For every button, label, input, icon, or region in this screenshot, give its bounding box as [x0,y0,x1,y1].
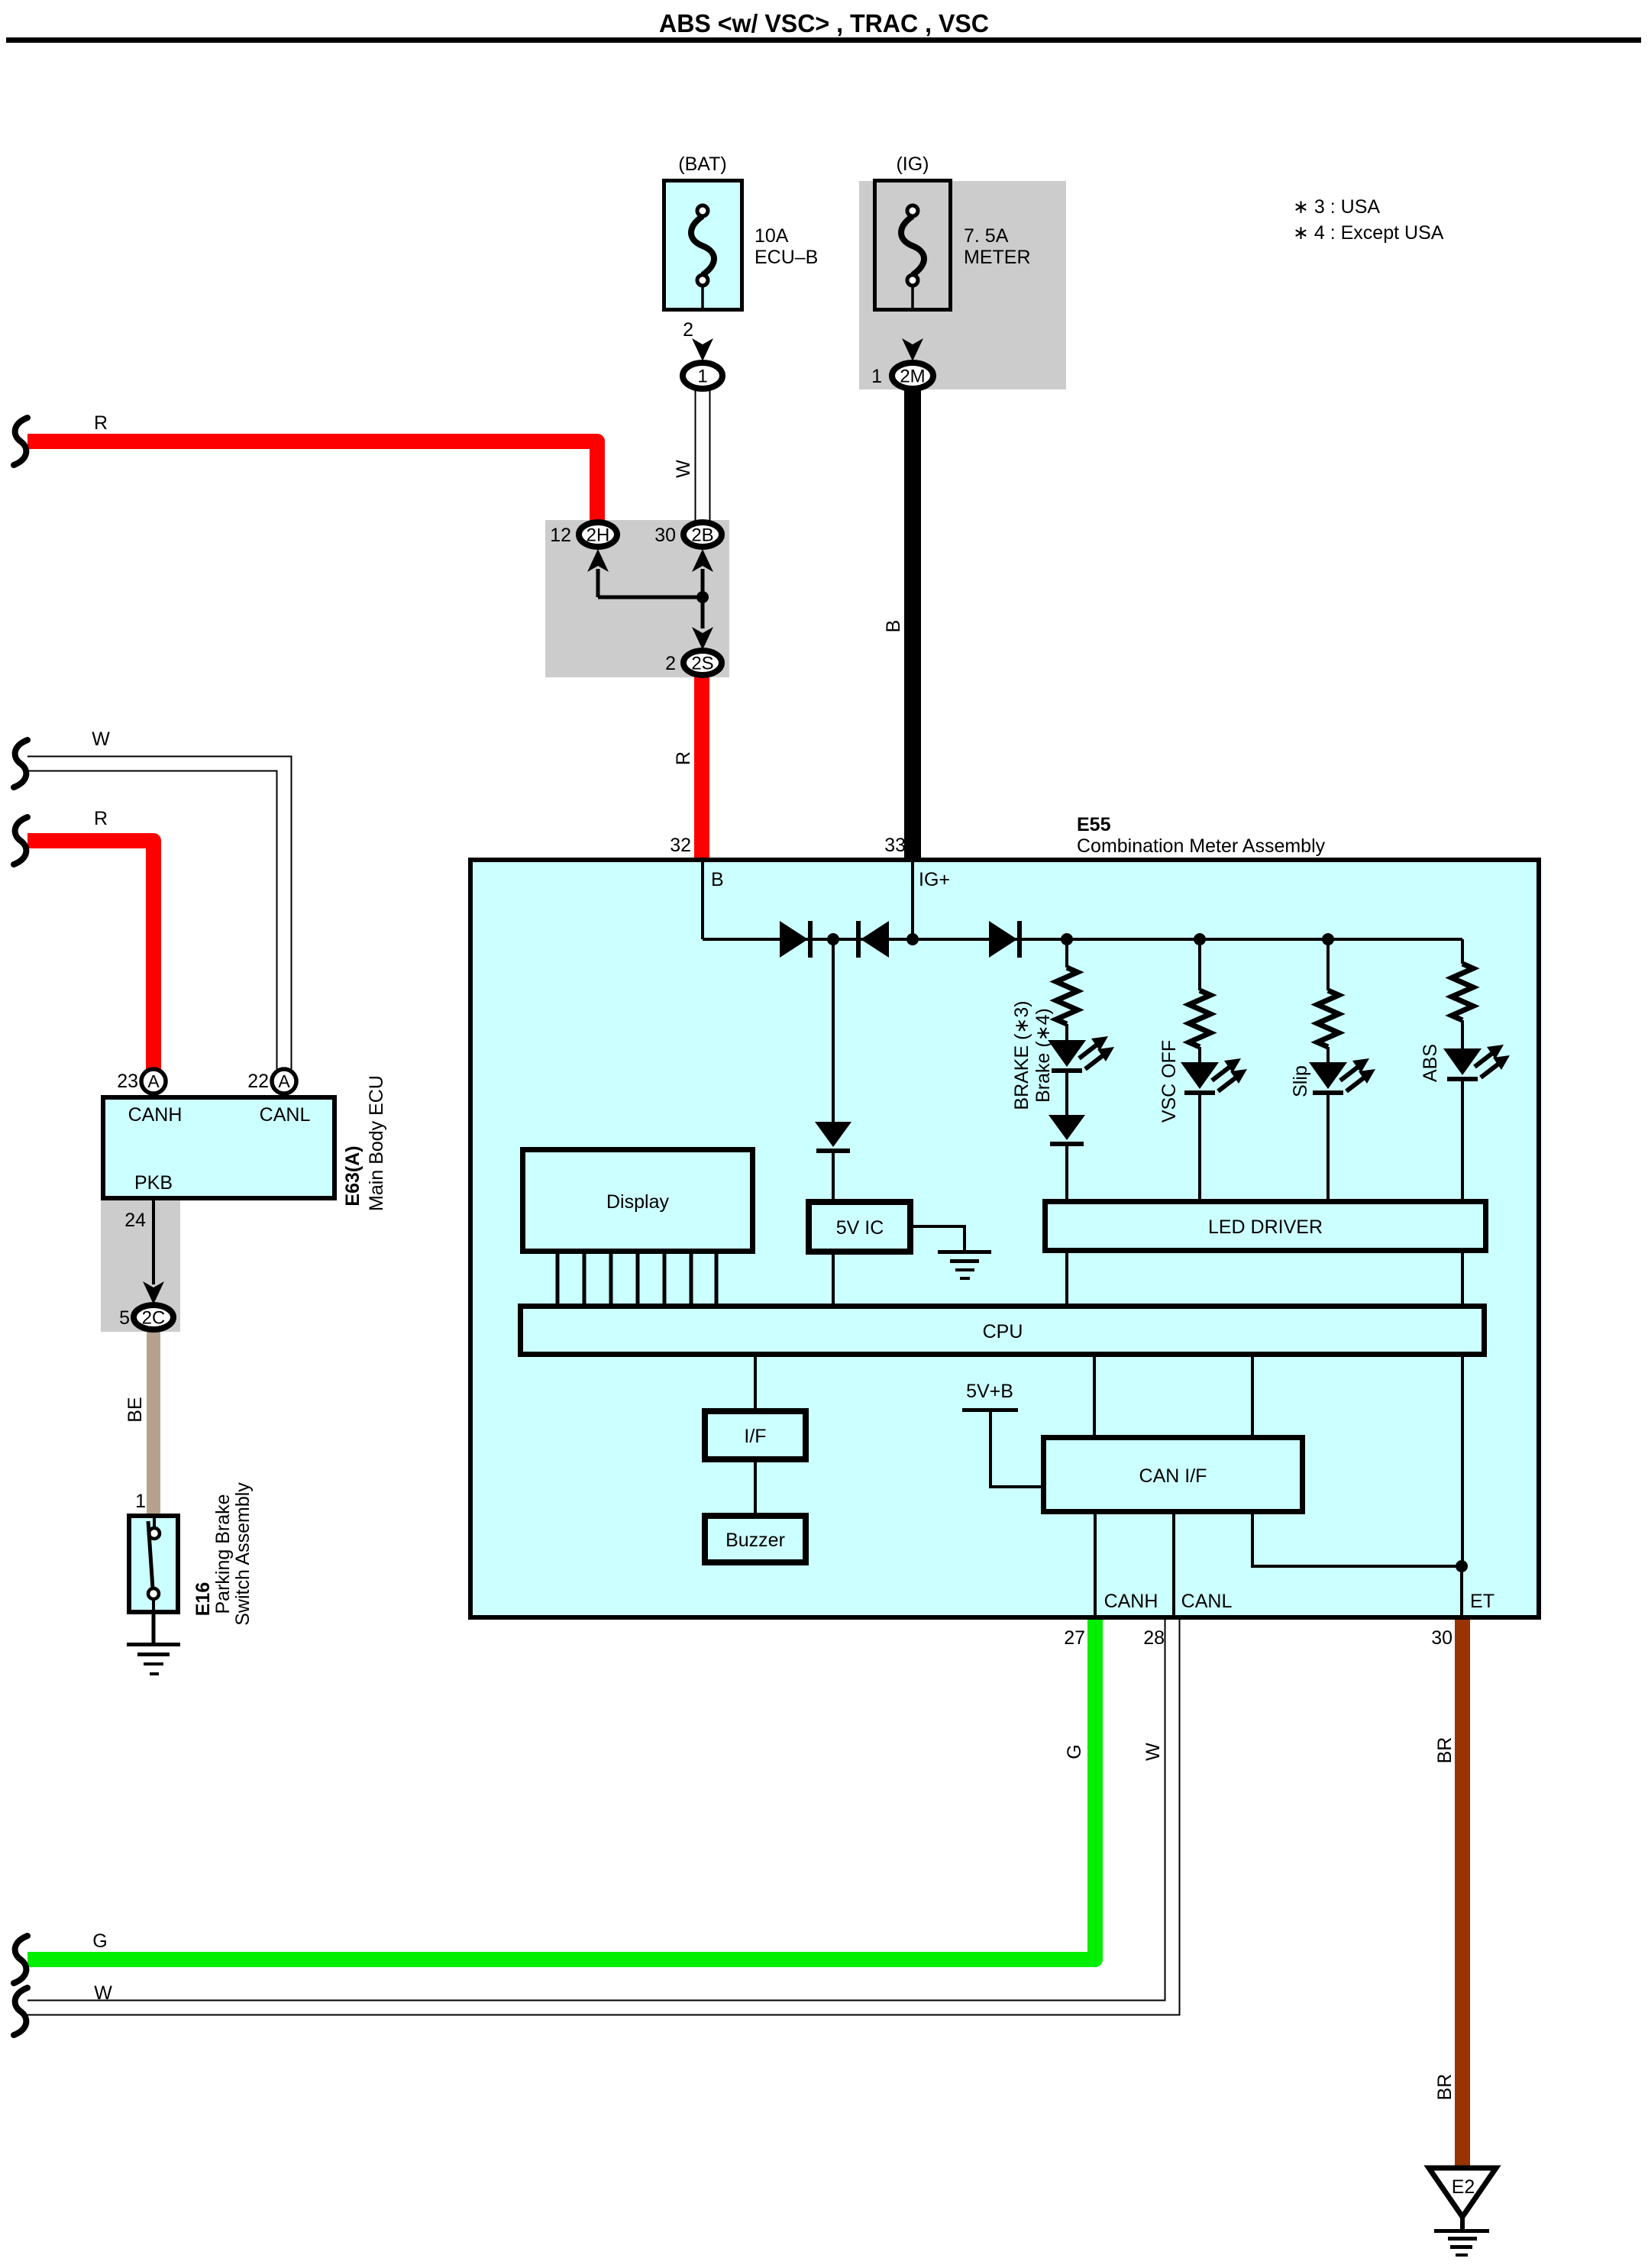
svg-text:Parking Brake: Parking Brake [212,1494,234,1614]
svg-text:(BAT): (BAT) [678,153,726,175]
svg-text:CANH: CANH [1104,1591,1158,1612]
svg-text:A: A [278,1071,290,1091]
svg-text:B: B [883,620,904,633]
svg-text:30: 30 [654,525,676,546]
svg-text:VSC OFF: VSC OFF [1158,1040,1180,1123]
svg-text:W: W [1142,1743,1164,1761]
svg-text:2C: 2C [142,1308,166,1329]
svg-text:METER: METER [964,247,1031,268]
svg-text:∗ 4 : Except USA: ∗ 4 : Except USA [1293,222,1444,244]
svg-text:E63(A): E63(A) [342,1145,364,1206]
svg-text:W: W [92,729,110,750]
svg-text:23: 23 [117,1071,138,1092]
svg-text:BRAKE (∗3): BRAKE (∗3) [1011,1000,1032,1110]
svg-text:Combination Meter Assembly: Combination Meter Assembly [1077,835,1326,857]
svg-text:33: 33 [884,835,906,856]
svg-text:2M: 2M [900,367,925,387]
svg-text:28: 28 [1143,1627,1165,1649]
svg-text:W: W [673,460,694,478]
svg-text:(IG): (IG) [896,153,929,175]
svg-text:CPU: CPU [983,1321,1023,1342]
svg-text:Buzzer: Buzzer [725,1530,785,1551]
svg-text:1: 1 [871,366,882,387]
svg-text:7. 5A: 7. 5A [964,225,1009,247]
svg-text:BR: BR [1434,1737,1456,1764]
svg-text:ABS: ABS [1420,1044,1441,1082]
svg-text:LED DRIVER: LED DRIVER [1208,1216,1323,1238]
svg-text:Switch Assembly: Switch Assembly [232,1482,254,1626]
svg-text:CAN I/F: CAN I/F [1139,1465,1207,1487]
svg-text:G: G [92,1930,107,1952]
svg-text:B: B [711,869,724,890]
svg-text:Display: Display [606,1191,669,1213]
svg-text:PKB: PKB [134,1172,173,1194]
svg-text:5: 5 [119,1307,130,1329]
svg-text:IG+: IG+ [919,869,950,890]
svg-text:ABS <w/ VSC> , TRAC , VSC: ABS <w/ VSC> , TRAC , VSC [659,9,989,37]
svg-text:Slip: Slip [1290,1065,1311,1097]
svg-text:ECU–B: ECU–B [755,247,818,268]
svg-text:2H: 2H [586,525,610,546]
svg-text:Main Body ECU: Main Body ECU [366,1075,387,1211]
svg-text:22: 22 [247,1071,269,1092]
svg-text:I/F: I/F [744,1426,766,1447]
svg-text:R: R [94,412,108,434]
svg-text:E55: E55 [1077,814,1111,835]
svg-text:24: 24 [124,1210,146,1231]
svg-text:30: 30 [1431,1627,1453,1649]
svg-text:2S: 2S [691,654,713,674]
svg-text:E2: E2 [1452,2176,1475,2198]
svg-text:5V+B: 5V+B [966,1381,1013,1402]
svg-text:1: 1 [697,367,707,387]
svg-text:Brake (∗4): Brake (∗4) [1032,1008,1054,1103]
svg-text:32: 32 [670,835,691,856]
svg-text:BE: BE [124,1397,146,1422]
svg-text:2: 2 [683,319,693,341]
svg-text:2B: 2B [691,525,713,546]
svg-text:1: 1 [135,1491,146,1512]
svg-text:R: R [94,808,108,829]
svg-text:E16: E16 [192,1582,214,1616]
svg-text:∗ 3 : USA: ∗ 3 : USA [1293,196,1380,218]
svg-text:CANL: CANL [260,1104,311,1126]
svg-text:2: 2 [665,653,676,674]
svg-text:BR: BR [1434,2074,1456,2101]
svg-text:12: 12 [550,525,571,546]
svg-text:W: W [94,1982,112,2004]
svg-text:5V IC: 5V IC [836,1217,884,1239]
svg-text:R: R [673,751,694,765]
svg-text:10A: 10A [755,225,789,247]
svg-text:A: A [147,1071,160,1091]
svg-text:CANL: CANL [1181,1591,1233,1612]
svg-text:27: 27 [1064,1627,1085,1649]
svg-text:ET: ET [1470,1591,1495,1612]
svg-text:G: G [1064,1744,1085,1759]
svg-text:CANH: CANH [128,1104,183,1126]
